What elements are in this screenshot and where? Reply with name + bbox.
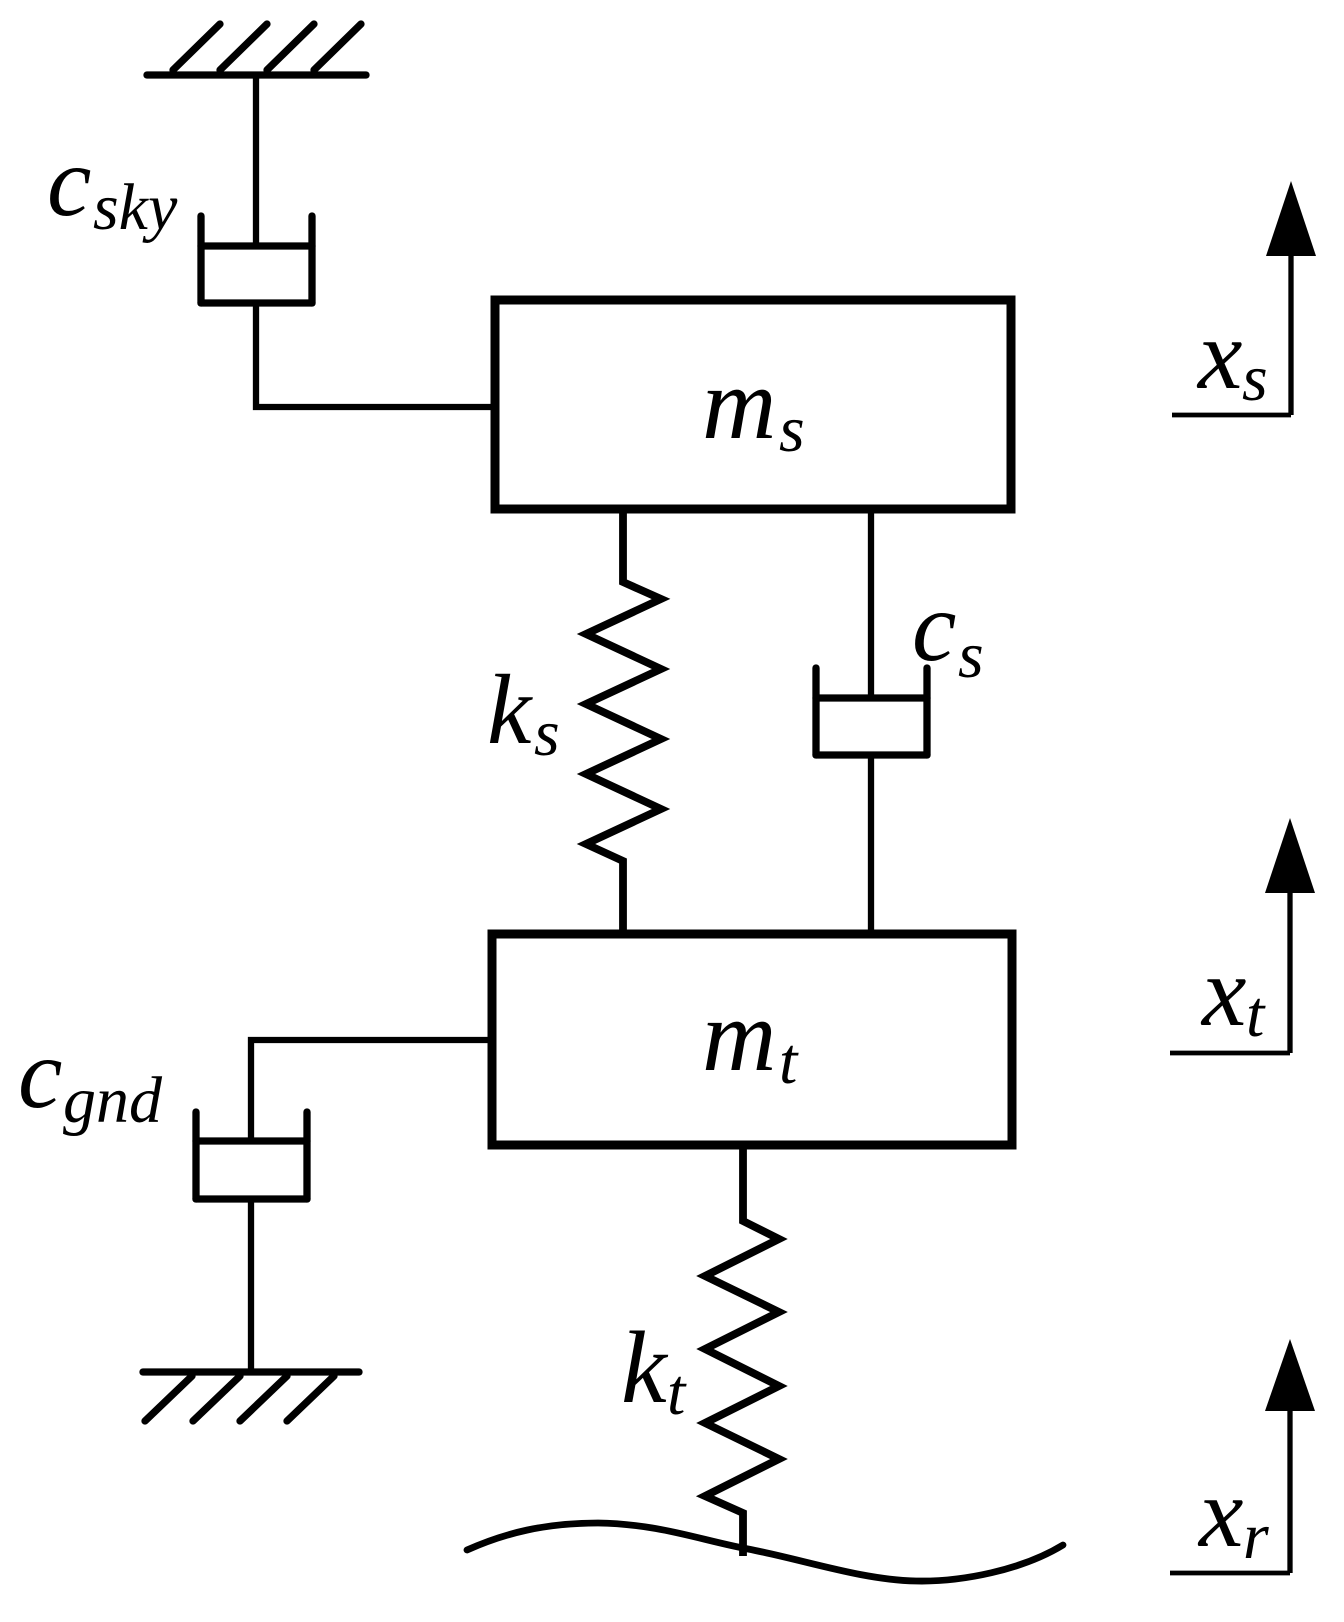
wire mass mt to damper Cgnd	[251, 1040, 492, 1141]
axis arrow x_t	[1170, 818, 1315, 1053]
fixed support ground (bottom-left)	[143, 1372, 359, 1421]
svg-text:x: x	[1197, 1457, 1243, 1568]
label x_r	[1197, 1457, 1269, 1573]
spring kt	[705, 1145, 779, 1556]
label k_t	[621, 1311, 687, 1429]
damper Csky	[201, 216, 312, 303]
svg-text:s: s	[958, 619, 984, 692]
svg-text:k: k	[487, 654, 533, 765]
svg-text:c: c	[18, 1018, 62, 1129]
wire damper Csky to mass ms	[256, 303, 492, 407]
wire damper Cs to mass mt	[868, 755, 874, 934]
wire ceiling to damper Csky	[253, 75, 259, 246]
svg-text:c: c	[912, 571, 956, 682]
label x_s	[1196, 299, 1268, 415]
svg-text:m: m	[702, 347, 776, 461]
svg-text:r: r	[1243, 1500, 1269, 1573]
svg-text:x: x	[1200, 936, 1246, 1047]
svg-text:sky: sky	[93, 171, 178, 244]
svg-text:s: s	[1242, 342, 1268, 415]
svg-text:k: k	[621, 1311, 669, 1425]
svg-text:t: t	[779, 1025, 799, 1098]
mass mt	[492, 934, 1012, 1145]
mass ms	[495, 300, 1011, 509]
svg-text:x: x	[1196, 299, 1242, 410]
axis arrow x_r	[1170, 1339, 1315, 1573]
label k_s	[487, 654, 560, 770]
svg-text:t: t	[667, 1356, 687, 1429]
svg-text:m: m	[702, 979, 776, 1093]
road surface	[467, 1523, 1063, 1581]
label x_t	[1200, 936, 1266, 1051]
spring ks	[586, 509, 661, 934]
damper Cgnd	[196, 1112, 307, 1199]
label c_sky	[47, 126, 178, 244]
wire damper Cgnd to ground	[248, 1199, 254, 1371]
axis arrow x_s	[1172, 181, 1316, 415]
fixed support ceiling (top-left)	[147, 24, 366, 75]
svg-text:t: t	[1246, 978, 1266, 1051]
svg-text:s: s	[779, 393, 805, 466]
label c_gnd	[18, 1018, 163, 1137]
damper Cs	[816, 668, 927, 755]
svg-text:c: c	[47, 126, 91, 237]
svg-text:s: s	[534, 697, 560, 770]
label c_s	[912, 571, 984, 692]
svg-text:gnd: gnd	[63, 1064, 163, 1137]
wire mass ms to damper Cs	[868, 509, 874, 698]
